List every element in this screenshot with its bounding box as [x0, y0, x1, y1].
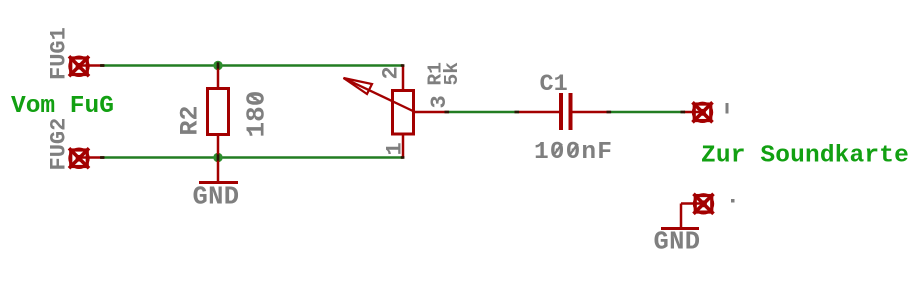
- svg-text:100nF: 100nF: [534, 139, 613, 166]
- svg-text:Vom FuG: Vom FuG: [11, 93, 114, 120]
- svg-text:C1: C1: [540, 71, 568, 98]
- svg-text:2: 2: [379, 66, 404, 79]
- svg-text:3: 3: [427, 95, 452, 108]
- svg-text:180: 180: [242, 91, 272, 138]
- svg-text:GND: GND: [654, 228, 701, 257]
- svg-text:FUG1: FUG1: [47, 27, 72, 80]
- svg-text:5k: 5k: [441, 62, 463, 86]
- svg-text:R2: R2: [176, 105, 205, 135]
- svg-text:1: 1: [383, 142, 408, 155]
- svg-text:Zur Soundkarte: Zur Soundkarte: [701, 143, 909, 170]
- svg-text:FUG2: FUG2: [47, 118, 72, 171]
- svg-text:GND: GND: [193, 183, 240, 212]
